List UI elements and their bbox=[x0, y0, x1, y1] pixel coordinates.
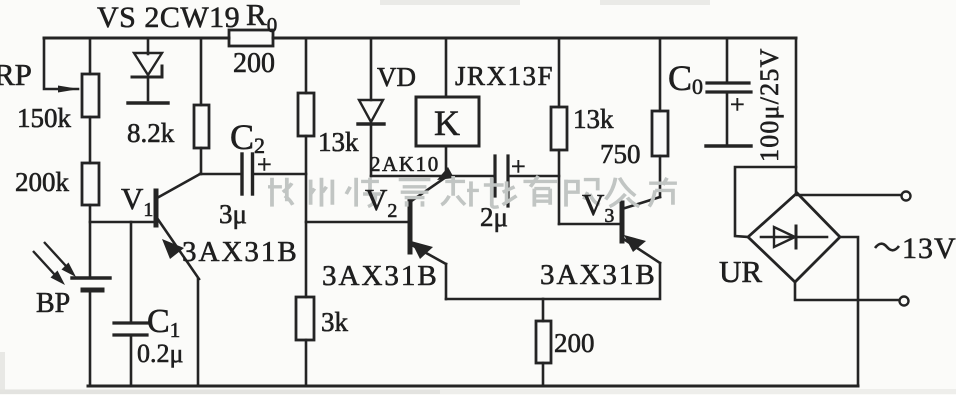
svg-text:750: 750 bbox=[600, 139, 641, 169]
resistor 13k (right) bbox=[558, 38, 561, 107]
svg-text:200: 200 bbox=[554, 328, 595, 358]
wire bottom rail bbox=[88, 385, 858, 388]
resistor 3k bbox=[296, 297, 314, 340]
relay K JRX13F bbox=[445, 38, 448, 97]
terminal bottom bbox=[900, 297, 909, 306]
resistor 750 bbox=[659, 38, 662, 111]
svg-text:100μ/25V: 100μ/25V bbox=[755, 47, 784, 162]
resistor RP 150k bbox=[82, 74, 99, 117]
V1 emitter arrow bbox=[162, 239, 184, 259]
svg-text:2AK10: 2AK10 bbox=[370, 152, 440, 176]
photocell BP bbox=[72, 276, 110, 279]
svg-text:RP: RP bbox=[0, 57, 32, 92]
arrowheads bbox=[51, 86, 647, 286]
resistor 8.2k bbox=[200, 38, 203, 105]
svg-text:VS 2CW19: VS 2CW19 bbox=[97, 1, 240, 34]
wire emitter bus bbox=[446, 263, 660, 299]
capacitor C1 0.2u bbox=[130, 222, 133, 321]
transistor V1 3AX31B bbox=[154, 191, 159, 225]
svg-text:UR: UR bbox=[719, 254, 762, 289]
wire VD to junction bbox=[371, 175, 493, 178]
svg-text:13k: 13k bbox=[573, 104, 614, 134]
svg-text:0.2μ: 0.2μ bbox=[137, 339, 183, 368]
capacitor 2u bbox=[493, 156, 496, 196]
transistor V2 3AX31B bbox=[408, 199, 413, 252]
wire C2 link bbox=[200, 173, 241, 176]
zener diode VS 2CW19 bbox=[147, 38, 150, 54]
wire V2 base bbox=[306, 221, 409, 224]
RP wiper arrow bbox=[58, 86, 79, 93]
wire top rail right bbox=[273, 37, 796, 40]
svg-text:JRX13F: JRX13F bbox=[455, 61, 554, 91]
svg-text:200: 200 bbox=[233, 48, 275, 79]
svg-text:13k: 13k bbox=[318, 127, 359, 157]
V2 collector arrow bbox=[411, 241, 433, 259]
svg-text:2μ: 2μ bbox=[480, 202, 508, 232]
svg-text:200k: 200k bbox=[15, 167, 70, 197]
bridge rectifier UR bbox=[748, 193, 840, 282]
svg-text:8.2k: 8.2k bbox=[127, 118, 175, 148]
V2 emitter arrow (at relay junction) bbox=[437, 167, 454, 180]
svg-text:V1: V1 bbox=[121, 181, 153, 221]
capacitor C2 3u bbox=[240, 154, 243, 194]
svg-text:K: K bbox=[434, 103, 460, 143]
wire bracket to bridge left bbox=[735, 167, 796, 237]
light arrow 2 bbox=[51, 271, 66, 286]
resistor 200 (emitter) bbox=[542, 299, 545, 321]
svg-text:3k: 3k bbox=[321, 307, 349, 337]
watermark 杭州将睿科技有限公司 bbox=[268, 176, 677, 207]
svg-text:R0: R0 bbox=[246, 0, 277, 37]
svg-text:VD: VD bbox=[377, 62, 416, 92]
diode VD 2AK10 bbox=[370, 38, 373, 100]
wire top rail left bbox=[44, 37, 229, 40]
transistor V3 3AX31B bbox=[620, 203, 625, 241]
svg-text:+: + bbox=[511, 152, 526, 181]
light rays into BP bbox=[33, 242, 66, 275]
svg-text:C1: C1 bbox=[147, 303, 180, 342]
svg-text:3μ: 3μ bbox=[219, 199, 247, 229]
potentiometer RP wiper bracket bbox=[44, 38, 78, 89]
svg-text:150k: 150k bbox=[17, 103, 72, 133]
svg-text:3AX31B: 3AX31B bbox=[322, 260, 439, 292]
capacitor C0 100u/25V bbox=[726, 38, 729, 81]
wire AC terminal top bbox=[797, 194, 901, 197]
svg-text:BP: BP bbox=[36, 288, 70, 319]
svg-text:13V: 13V bbox=[902, 232, 956, 265]
svg-text:+: + bbox=[730, 90, 745, 119]
wire AC terminal bottom bbox=[795, 282, 899, 300]
V3 emitter arrow bbox=[624, 235, 646, 252]
wire V1 base bbox=[90, 221, 154, 224]
resistor 200k bbox=[82, 163, 99, 205]
wire bridge right to bottom rail bbox=[840, 237, 858, 386]
svg-text:+: + bbox=[257, 150, 272, 179]
wire V3 base bbox=[559, 223, 620, 226]
svg-text:3AX31B: 3AX31B bbox=[540, 259, 657, 291]
svg-text:V2: V2 bbox=[365, 182, 397, 222]
wire rail to bridge bbox=[795, 38, 798, 193]
svg-text:C0: C0 bbox=[668, 58, 703, 99]
terminal top bbox=[902, 192, 911, 201]
svg-text:3AX31B: 3AX31B bbox=[182, 236, 299, 268]
light arrow 1 bbox=[62, 263, 77, 278]
resistor 13k (left) bbox=[305, 38, 308, 93]
resistor R0 200 bbox=[229, 30, 273, 46]
label ~ tilde bbox=[875, 244, 899, 251]
